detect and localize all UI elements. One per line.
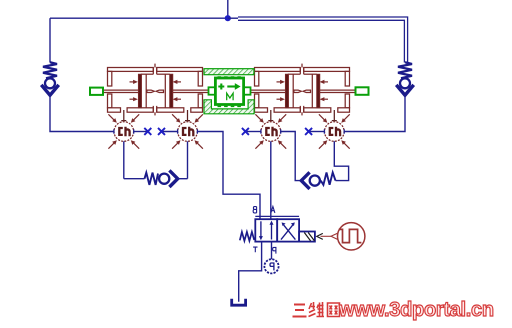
valve body right square: [277, 219, 299, 241]
valve right square cross path 1: [281, 225, 293, 240]
arrow chamber A upper right: [277, 80, 285, 84]
piston rod outlet right: [319, 90, 355, 92]
node junction: [225, 15, 231, 21]
svg-text:www.3dportal.cn: www.3dportal.cn: [338, 299, 494, 321]
cylinder block right top bar left: [255, 68, 301, 72]
signal generator circle: [338, 223, 365, 250]
valve spring: [240, 232, 254, 241]
chamber top line A right: [288, 73, 301, 75]
relief valve left seat: [169, 170, 177, 187]
relief valve right seat: [301, 172, 309, 189]
arrow chamber A lower left: [130, 97, 138, 101]
valve port label A: [271, 207, 275, 213]
check valve CV2 spring: [398, 62, 412, 78]
rod coupling right right: [303, 90, 310, 92]
cylinder block right top center tick: [301, 64, 303, 68]
piston rod inlet right: [251, 90, 286, 92]
arrow chamber A upper left: [130, 80, 138, 84]
port cap Ch4 left: [323, 129, 325, 133]
piston rod inlet left: [104, 90, 139, 92]
flow meter Ch2 arrow SW: [172, 140, 180, 148]
rod coupling left right: [294, 90, 301, 92]
flow meter Ch3 arrow SW: [255, 140, 263, 148]
flow meter Ch4 arrow NE: [341, 114, 349, 122]
port cap Ch3 right: [280, 129, 282, 133]
flow meter Ch2 arrow NE: [195, 114, 203, 122]
wire Ch3 down to valve A: [270, 141, 272, 219]
arrow chamber B lower left: [173, 97, 181, 101]
motor bottom dashes: [218, 105, 242, 107]
chamber top line A left: [141, 73, 154, 75]
valve port label T: [253, 247, 257, 252]
motor arrow: [227, 85, 235, 87]
wire top right outer run: [238, 17, 408, 63]
flow meter Ch3 port stub: [268, 110, 273, 121]
plug x left of Ch4: [305, 128, 312, 135]
motor left tab: [209, 87, 216, 94]
valve left square up path: [271, 224, 273, 240]
relief valve right spring: [321, 173, 336, 185]
cylinder head line A right: [292, 74, 294, 108]
wire stub left of Ch4: [309, 131, 325, 133]
cylinder head line B right: [311, 74, 313, 108]
valve top rail: [255, 215, 299, 217]
flow meter Ch4 circle: [325, 122, 345, 142]
check valve CV2 ball: [400, 78, 410, 88]
cylinder block right upper left wall: [255, 71, 259, 86]
arrow chamber B upper left: [173, 80, 181, 84]
cylinder block left upper right wall: [198, 71, 202, 86]
cylinder block right upper right wall: [345, 71, 349, 86]
cylinder block right right foot: [338, 108, 350, 112]
relief valve left ball: [159, 174, 169, 184]
piston A left: [138, 74, 141, 108]
flow meter Ch1 arrow NE: [131, 114, 139, 122]
wire stub right of node: [228, 17, 238, 19]
cylinder block right bottom bar left: [274, 108, 300, 112]
cylinder block left lower left wall: [108, 94, 112, 108]
wire valve T to tank: [239, 242, 262, 302]
flow meter Ch1 arrow SE: [131, 140, 139, 148]
valve solenoid box: [299, 232, 315, 242]
wire top right inner run: [238, 20, 404, 62]
watermark chinese char san: [293, 305, 307, 317]
cylinder block right top center divider: [300, 68, 303, 75]
wire from node up to top edge: [227, 0, 229, 18]
arrow chamber B lower right: [320, 97, 328, 101]
flow meter Ch2 label: [183, 127, 193, 137]
flow meter Ch4 arrow NW: [319, 114, 327, 122]
flow meter Ch2 arrow SE: [195, 140, 203, 148]
port cap Ch2 right: [196, 129, 198, 133]
port cap Ch1 left: [113, 129, 115, 133]
flow meter Ch1 arrow SW: [108, 140, 116, 148]
flow meter Ch3 label: [266, 127, 276, 137]
cylinder block right bottom center divider: [300, 106, 303, 112]
check valve CV1 ball: [45, 78, 55, 88]
flow meter Ch1 circle: [114, 122, 134, 142]
valve cross head 1: [291, 222, 295, 226]
wire stub left of Ch3: [246, 131, 262, 133]
flow meter Ch2 arrow NW: [172, 114, 180, 122]
cylinder block left top bar right: [157, 68, 203, 72]
relief valve right ball: [310, 176, 320, 186]
flow meter Ch4 arrow SE: [341, 140, 349, 148]
cylinder block left bottom bar right: [157, 108, 184, 112]
cylinder block right left foot: [255, 108, 268, 112]
valve cross head 2: [282, 222, 286, 226]
wire left vertical down: [49, 18, 51, 62]
piston A right: [285, 74, 288, 108]
relief valve left spring: [145, 173, 159, 185]
valve port label B: [253, 207, 256, 213]
valve body left square: [255, 219, 277, 241]
solenoid input arrowhead: [317, 233, 323, 239]
flow meter Ch1 port stub: [121, 110, 126, 121]
motor top hatched mount: [204, 69, 254, 75]
watermark chinese char wang: [328, 303, 340, 317]
cylinder block right bottom bar right: [304, 108, 331, 112]
green port left: [90, 88, 103, 95]
cylinder block right top bar right: [304, 68, 350, 72]
valve port label P mirrored: [273, 247, 276, 254]
flow meter Ch3 arrow NE: [278, 114, 286, 122]
flow meter Ch4 port stub: [332, 110, 337, 121]
wire Ch1 to left relief: [124, 178, 145, 180]
wire Ch2 down: [187, 141, 189, 178]
motor right tab: [244, 87, 251, 94]
valve left square down path: [260, 221, 262, 237]
piston B left: [170, 74, 173, 108]
flow meter Ch1 label: [119, 127, 129, 137]
wire top horizontal to left: [50, 17, 228, 19]
plug x left of Ch2: [158, 128, 165, 135]
rod coupling left left: [147, 90, 154, 92]
cylinder block left lower right wall: [198, 94, 202, 108]
wire stub right of Ch1: [134, 131, 148, 133]
port cap Ch1 right: [133, 129, 135, 133]
pressure source label P: [270, 263, 274, 271]
wire below CV2: [344, 95, 405, 132]
signal generator square wave: [339, 229, 362, 242]
cylinder block left top center tick: [154, 64, 156, 68]
valve left square up head: [270, 221, 274, 225]
valve right square cross path 2: [284, 225, 296, 240]
valve solenoid diagonals: [304, 233, 314, 241]
cylinder block right lower right wall: [345, 94, 349, 108]
motor plus sign: [218, 84, 224, 90]
motor bottom hatched mount: [204, 100, 254, 114]
chamber top line B left: [157, 73, 170, 75]
motor top dashes: [218, 76, 242, 78]
arrow chamber A lower right: [277, 97, 285, 101]
rod coupling right left: [156, 90, 163, 92]
piston B right: [317, 74, 320, 108]
cylinder head line B left: [164, 74, 166, 108]
check valve CV2 seat: [396, 85, 413, 95]
wire Ch3 to right relief: [281, 132, 301, 181]
cylinder block left bottom center tick: [154, 112, 156, 115]
pressure source circle: [264, 259, 278, 273]
motor arrow head: [235, 83, 241, 90]
signal wire: [321, 235, 332, 237]
cylinder block left bottom bar left: [127, 108, 153, 112]
cylinder block right lower left wall: [255, 94, 259, 108]
port cap Ch2 left: [177, 129, 179, 133]
flow meter Ch4 arrow SW: [319, 140, 327, 148]
wire stub left of Ch2: [162, 131, 178, 133]
cylinder block left right foot: [191, 108, 203, 112]
flow meter Ch2 port stub: [185, 110, 190, 121]
cylinder block left bottom center divider: [153, 106, 156, 112]
watermark chinese char wei: [309, 302, 325, 317]
cylinder block left left foot: [108, 108, 121, 112]
cylinder block left top center divider: [153, 68, 156, 75]
check valve CV1 spring: [43, 62, 57, 78]
tank symbol: [232, 299, 246, 305]
motor label M: [227, 93, 233, 100]
wire Ch4 down to right relief: [334, 141, 348, 180]
green port right: [356, 87, 369, 95]
chamber top line B right: [304, 73, 317, 75]
cylinder head line A left: [145, 74, 147, 108]
port cap Ch4 right: [343, 129, 345, 133]
plug x right of Ch1: [144, 128, 151, 135]
flow meter Ch3 arrow SE: [278, 140, 286, 148]
wire below CV1: [50, 95, 114, 132]
piston rod outlet left: [172, 90, 208, 92]
arrow chamber B upper right: [320, 80, 328, 84]
wire left relief to Ch2: [177, 178, 187, 180]
cylinder block left top bar left: [108, 68, 154, 72]
flow meter Ch3 circle: [261, 122, 281, 142]
check valve CV1 seat: [41, 85, 58, 95]
flow meter Ch3 arrow NW: [255, 114, 263, 122]
flow meter Ch1 arrow NW: [108, 114, 116, 122]
signal port triangle: [331, 233, 338, 239]
flow meter Ch4 label: [330, 127, 340, 137]
cylinder block left upper left wall: [108, 71, 112, 86]
plug x left of Ch3: [242, 128, 249, 135]
flow meter Ch2 circle: [178, 122, 198, 142]
wire Ch2 to valve B: [197, 132, 260, 220]
valve left square down head: [259, 236, 263, 240]
wire Ch1 down: [123, 141, 125, 178]
motor box: [215, 78, 243, 105]
cylinder block right bottom center tick: [301, 112, 303, 115]
wire valve P down: [271, 242, 273, 260]
port cap Ch3 left: [260, 129, 262, 133]
